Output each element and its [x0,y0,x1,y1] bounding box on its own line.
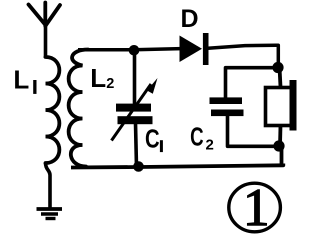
wire C1 bottom [136,123,137,167]
wire C1 top [133,50,137,105]
inductor L1 [46,57,60,163]
antenna [29,3,61,27]
wire resistor bottom lead [278,125,282,146]
wire L1 to ground [46,163,51,210]
node junction right top [272,62,283,73]
node junction right bottom [273,140,284,151]
ground [37,209,63,219]
wire right down to bottom rail [280,146,284,164]
wire top rail left [78,49,181,50]
wire C2 bottom [228,115,277,146]
svg-text:C: C [145,124,160,153]
wire resistor top lead [280,67,281,87]
wire junction to C2 top [226,68,279,99]
C1 variable arrow [112,84,152,141]
svg-text:1: 1 [243,179,270,237]
svg-text:L: L [90,63,106,93]
capacitor C1 [116,104,153,125]
resistor [266,88,292,126]
inductor L2 [69,50,88,167]
svg-text:L: L [13,64,29,94]
svg-text:D: D [181,5,199,33]
svg-text:2: 2 [106,76,114,92]
figure number circle [229,183,281,232]
svg-text:C: C [190,121,204,151]
diode D [180,36,203,63]
svg-text:2: 2 [206,137,214,154]
wire top rail right [208,45,278,66]
node junction bottom (C1 to rail) [133,161,144,172]
capacitor C2 [210,97,244,116]
wire antenna lead [44,24,48,58]
node junction top (C1 tap) [129,45,140,56]
wire bottom rail [71,164,283,168]
